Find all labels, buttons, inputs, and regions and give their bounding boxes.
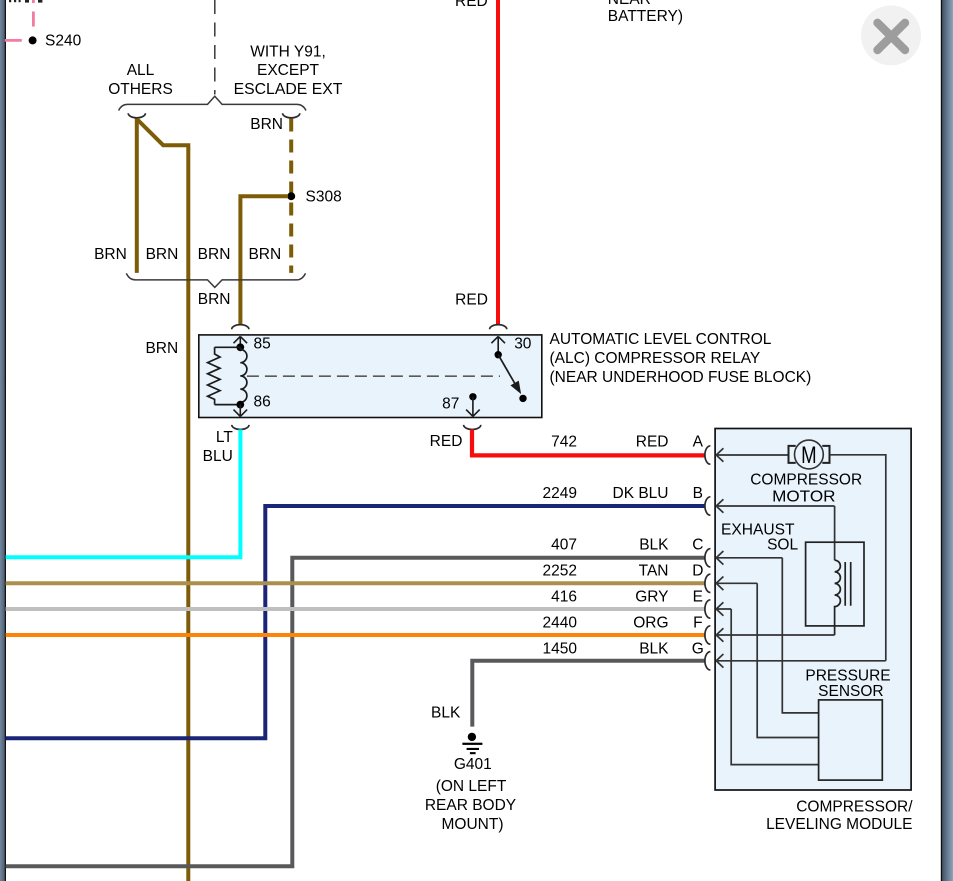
svg-text:TAN: TAN bbox=[639, 563, 669, 580]
relay switch blade with arrow bbox=[498, 355, 515, 384]
cut-off text fragments at top left bbox=[9, 0, 42, 3]
left modal border line bbox=[5, 0, 6, 881]
module pin E arrow and wire to pressure sensor bbox=[716, 602, 818, 764]
svg-text:BRN: BRN bbox=[250, 116, 283, 133]
svg-text:OTHERS: OTHERS bbox=[108, 81, 173, 98]
module pin B arrow and wire to solenoid bbox=[716, 499, 834, 560]
svg-text:LT: LT bbox=[216, 429, 233, 446]
svg-text:(ALC) COMPRESSOR RELAY: (ALC) COMPRESSOR RELAY bbox=[550, 350, 761, 367]
relay resistor zigzag bbox=[208, 347, 220, 404]
svg-text:BRN: BRN bbox=[248, 246, 281, 263]
wire BRN diagonal to long run bbox=[137, 119, 189, 881]
svg-text:BRN: BRN bbox=[146, 246, 179, 263]
svg-text:REAR BODY: REAR BODY bbox=[425, 797, 516, 814]
svg-text:87: 87 bbox=[442, 395, 459, 412]
compressor motor circle bbox=[795, 440, 824, 469]
connector cup relay pin 86 bbox=[232, 425, 249, 430]
wire pink dashed horizontal to S240 bbox=[5, 39, 30, 42]
wire BLK 407 bbox=[6, 558, 705, 866]
close button X bbox=[878, 23, 906, 50]
relay pin 87 arrow bbox=[466, 397, 480, 417]
svg-text:F: F bbox=[693, 614, 702, 631]
svg-text:AUTOMATIC LEVEL CONTROL: AUTOMATIC LEVEL CONTROL bbox=[550, 331, 772, 348]
svg-text:742: 742 bbox=[551, 434, 577, 451]
svg-text:(NEAR UNDERHOOD FUSE BLOCK): (NEAR UNDERHOOD FUSE BLOCK) bbox=[550, 369, 812, 386]
connector cup left branch bbox=[128, 113, 145, 118]
relay coil winding bbox=[240, 347, 247, 404]
svg-text:B: B bbox=[693, 485, 703, 502]
svg-text:SOL: SOL bbox=[767, 537, 798, 554]
connector cup relay pin 87 bbox=[464, 425, 481, 430]
wire pink dashed vertical (from top) bbox=[32, 0, 35, 30]
svg-text:G: G bbox=[692, 640, 704, 657]
svg-text:86: 86 bbox=[254, 393, 271, 410]
relay contact dot bbox=[519, 395, 526, 402]
module pin C arrow and wire to pressure sensor bbox=[716, 551, 818, 713]
svg-text:BATTERY): BATTERY) bbox=[608, 8, 683, 25]
splice S240 dot bbox=[29, 36, 37, 44]
svg-text:GRY: GRY bbox=[635, 589, 668, 606]
gather brace bbox=[126, 273, 305, 287]
svg-text:PRESSURE: PRESSURE bbox=[805, 667, 890, 684]
svg-text:MOUNT): MOUNT) bbox=[442, 816, 504, 833]
wire DK BLU 2249 bbox=[6, 506, 705, 738]
svg-text:SENSOR: SENSOR bbox=[818, 683, 883, 700]
svg-text:BLK: BLK bbox=[639, 536, 669, 553]
relay box ALC compressor relay bbox=[199, 335, 542, 418]
connector cup right branch bbox=[283, 113, 300, 118]
svg-text:ESCLADE EXT: ESCLADE EXT bbox=[234, 81, 343, 98]
svg-text:D: D bbox=[692, 563, 703, 580]
svg-text:BRN: BRN bbox=[145, 340, 178, 357]
wire GRY 416 bbox=[6, 607, 705, 611]
wire BRN vertical 1 bbox=[135, 119, 139, 273]
svg-text:E: E bbox=[693, 589, 703, 606]
connector cup module pin G bbox=[705, 652, 710, 670]
relay pin 30 dot bbox=[495, 351, 502, 358]
svg-text:COMPRESSOR: COMPRESSOR bbox=[750, 471, 862, 488]
module pin D arrow and wire to pressure sensor bbox=[716, 577, 818, 738]
svg-text:2249: 2249 bbox=[543, 485, 577, 502]
wire BLK 1450 from module pin G to ground bbox=[472, 661, 704, 727]
right scrollbar bbox=[942, 0, 953, 881]
relay pin 86 arrow bbox=[234, 405, 248, 417]
connector dome relay pin 30 bbox=[490, 325, 507, 330]
svg-text:2252: 2252 bbox=[543, 563, 577, 580]
module pin G arrow and wire to motor return bbox=[716, 654, 886, 668]
svg-text:RED: RED bbox=[636, 434, 669, 451]
module pin A arrow and wire to motor bbox=[716, 448, 788, 462]
connector cup module pin C bbox=[705, 549, 710, 567]
svg-text:BLK: BLK bbox=[431, 705, 461, 722]
wire LT BLU from relay pin 86 bbox=[6, 430, 241, 558]
compressor motor brush left bbox=[789, 446, 796, 463]
relay pin 85 dot bbox=[236, 343, 244, 351]
right modal border line bbox=[941, 0, 943, 881]
splice S308 dot bbox=[287, 192, 295, 200]
svg-text:S308: S308 bbox=[306, 188, 342, 205]
ground G401 symbol bbox=[462, 733, 482, 754]
svg-text:WITH Y91,: WITH Y91, bbox=[250, 44, 326, 61]
svg-text:1450: 1450 bbox=[543, 640, 578, 657]
relay pin 30 arrow bbox=[491, 336, 505, 354]
connector dome relay pin 85 bbox=[232, 325, 249, 330]
svg-text:407: 407 bbox=[551, 536, 577, 553]
wire RED from top to relay pin 30 bbox=[496, 0, 500, 325]
svg-text:M: M bbox=[801, 442, 817, 469]
wire BRN from S308 to relay drop bbox=[240, 196, 288, 325]
svg-text:416: 416 bbox=[551, 589, 577, 606]
close button circle bbox=[861, 5, 921, 65]
wire ORG 2440 bbox=[6, 633, 705, 637]
svg-text:RED: RED bbox=[430, 433, 463, 450]
compressor motor brush right bbox=[822, 446, 829, 463]
svg-text:BLK: BLK bbox=[639, 640, 669, 657]
svg-text:BLU: BLU bbox=[203, 448, 233, 465]
svg-text:G401: G401 bbox=[454, 756, 492, 773]
svg-text:C: C bbox=[692, 536, 703, 553]
svg-text:RED: RED bbox=[455, 291, 488, 308]
connector cup module pin F bbox=[705, 626, 710, 644]
svg-text:EXCEPT: EXCEPT bbox=[257, 62, 320, 79]
relay pin 85 arrow bbox=[234, 336, 248, 347]
left page-edge sliver bbox=[0, 0, 5, 881]
svg-text:RED: RED bbox=[455, 0, 488, 10]
svg-text:85: 85 bbox=[254, 335, 271, 352]
svg-text:2440: 2440 bbox=[543, 614, 578, 631]
svg-text:BRN: BRN bbox=[94, 246, 127, 263]
svg-text:COMPRESSOR/: COMPRESSOR/ bbox=[796, 799, 913, 816]
connector cup module pin A bbox=[705, 446, 710, 464]
pressure sensor box bbox=[819, 700, 883, 780]
connector cup module pin D bbox=[705, 574, 710, 592]
exhaust solenoid core lines bbox=[845, 562, 851, 606]
relay pin 86 dot bbox=[236, 401, 244, 409]
svg-text:DK BLU: DK BLU bbox=[613, 485, 669, 502]
svg-text:A: A bbox=[693, 434, 704, 451]
svg-text:S240: S240 bbox=[45, 33, 82, 50]
relay pin 87 dot bbox=[469, 393, 476, 400]
svg-text:ORG: ORG bbox=[633, 614, 668, 631]
relay armature dashed link bbox=[247, 375, 500, 377]
wire BRN dashed (Y91 branch) bbox=[289, 119, 293, 273]
compressor/leveling module box bbox=[715, 429, 911, 791]
wire motor to right riser bbox=[830, 455, 886, 661]
svg-text:BRN: BRN bbox=[198, 291, 231, 308]
svg-text:BRN: BRN bbox=[198, 246, 231, 263]
svg-text:(ON LEFT: (ON LEFT bbox=[436, 778, 507, 795]
connector cup module pin E bbox=[705, 600, 710, 618]
exhaust solenoid box bbox=[806, 542, 864, 626]
top option brace bbox=[119, 96, 306, 110]
svg-text:MOTOR: MOTOR bbox=[772, 488, 835, 505]
module pin F arrow and wire to solenoid bbox=[716, 628, 834, 642]
connector cup module pin B bbox=[705, 497, 710, 515]
svg-text:ALL: ALL bbox=[127, 62, 155, 79]
wire TAN 2252 bbox=[6, 581, 705, 585]
dashed option divider line bbox=[214, 0, 216, 95]
svg-text:30: 30 bbox=[514, 335, 532, 352]
svg-text:NEAR: NEAR bbox=[608, 0, 651, 8]
relay coil top link bbox=[215, 346, 241, 348]
relay coil bottom link bbox=[215, 404, 241, 406]
wire RED 742 from relay pin 87 to module pin A bbox=[472, 430, 705, 456]
svg-text:LEVELING MODULE: LEVELING MODULE bbox=[766, 816, 912, 833]
exhaust solenoid coil winding bbox=[835, 560, 841, 635]
